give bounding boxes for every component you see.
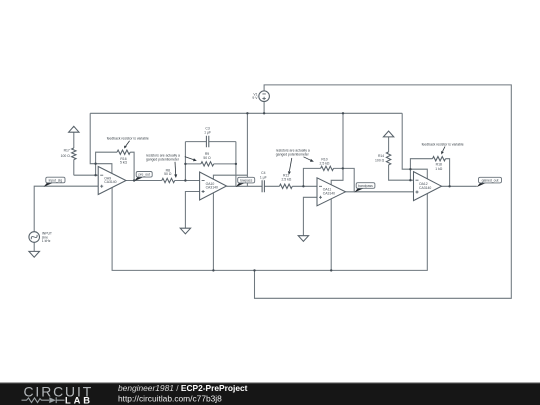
wire V- rail horizontal <box>112 188 427 271</box>
CircuitLab logo waveform and diode <box>22 397 65 403</box>
node flag pre_out <box>134 172 152 182</box>
wire OA10 feedback loop right vertical <box>235 142 237 187</box>
resistor R17 <box>61 148 76 160</box>
node flag lowpass <box>236 177 255 187</box>
svg-text:feedback resistor is variable: feedback resistor is variable <box>107 136 149 140</box>
resistor R11 <box>279 174 292 189</box>
wire bus drop to OA11 feedback node and top pin <box>331 113 343 185</box>
wire top supply loop from V1 top around right side to bottom <box>255 85 512 298</box>
voltage source V2 INPUT sine <box>29 232 52 244</box>
node flag gained_out <box>477 177 502 187</box>
annotation feedback resistor is variable (stage 1) <box>107 136 149 148</box>
battery V1 <box>252 91 269 102</box>
svg-text:1 kΩ: 1 kΩ <box>435 167 443 171</box>
svg-text:CA3140: CA3140 <box>323 192 335 196</box>
svg-text:http://circuitlab.com/c77b3j8: http://circuitlab.com/c77b3j8 <box>118 393 222 403</box>
svg-text:feedback resistor is variable: feedback resistor is variable <box>422 142 464 146</box>
wire OA10 plus input to ground <box>185 192 199 229</box>
wire OA10 feedback loop left vertical <box>184 142 186 181</box>
resistor R8 <box>162 168 175 182</box>
wire R14 leads to OA12 minus node <box>389 137 411 180</box>
wire bus drop to OA12 minus node and top pin <box>402 113 427 179</box>
wire R17 to OA9 minus input <box>74 174 98 176</box>
op-amp OA9 <box>98 167 126 195</box>
svg-text:1 kHz: 1 kHz <box>42 239 51 243</box>
ground below OA10 plus input <box>180 228 190 234</box>
wire OA11 plus input to ground <box>303 197 317 235</box>
wire C4 to R11 to OA11 minus <box>264 185 317 187</box>
op-amp OA11 <box>317 178 346 206</box>
node flag bandpass <box>354 183 375 193</box>
svg-text:5 kΩ: 5 kΩ <box>120 161 128 165</box>
ground below input source <box>29 251 40 257</box>
svg-text:2.5 kΩ: 2.5 kΩ <box>320 161 330 165</box>
svg-text:1 µF: 1 µF <box>260 175 267 179</box>
svg-text:CA3140: CA3140 <box>206 186 218 190</box>
ground below OA11 plus input <box>298 236 308 242</box>
annotation ganged potentiometer (stage 3) <box>276 148 314 174</box>
annotation ganged potentiometer (stage 2) <box>146 153 197 178</box>
svg-text:100 Ω: 100 Ω <box>375 158 385 162</box>
svg-text:R17: R17 <box>64 149 70 153</box>
wire bus drop to OA9 minus node and top pin <box>90 113 112 173</box>
resistor R14 <box>375 152 391 165</box>
wire OA12 output to gained_out <box>442 185 477 187</box>
svg-text:bengineer1981 / ECP2-PreProjec: bengineer1981 / ECP2-PreProject <box>118 383 248 393</box>
wire OA12 minus stub <box>410 179 413 181</box>
wire OA10 output to C4 <box>227 185 263 187</box>
svg-text:ganged potentiometer: ganged potentiometer <box>276 153 310 157</box>
svg-text:100 Ω: 100 Ω <box>61 154 71 158</box>
op-amp OA10 <box>200 172 227 200</box>
wire R17 leads <box>73 132 75 175</box>
power symbol above R14 <box>383 131 393 137</box>
wire OA12 feedback loop with R18 <box>410 159 449 187</box>
resistor R9 <box>201 152 214 166</box>
svg-text:input_sig: input_sig <box>49 178 63 182</box>
svg-text:lowpass: lowpass <box>240 179 253 183</box>
wire OA11 feedback loop with R10 <box>303 168 354 191</box>
resistor R16 <box>117 150 130 165</box>
wire source bottom to ground <box>33 242 35 251</box>
svg-text:50 Ω: 50 Ω <box>203 156 211 160</box>
wire bus drop to OA10 top pin <box>213 113 247 186</box>
wire V1 bottom lead to bus <box>263 102 265 114</box>
wire V+ bus horizontal <box>90 112 402 114</box>
svg-text:gained_out: gained_out <box>482 179 499 183</box>
svg-text:CA3140: CA3140 <box>104 180 116 184</box>
capacitor C4 <box>260 171 267 192</box>
svg-text:1 µF: 1 µF <box>204 130 211 134</box>
annotation feedback resistor is variable (stage 4) <box>422 142 464 154</box>
svg-text:2.5 kΩ: 2.5 kΩ <box>281 178 291 182</box>
footer black bar <box>0 383 540 405</box>
junction node dots <box>94 112 450 271</box>
svg-text:9 V: 9 V <box>252 96 258 100</box>
svg-text:50 Ω: 50 Ω <box>164 172 172 176</box>
power symbol above R17 <box>69 126 79 132</box>
wire OA9 output through R8 to OA10 minus <box>126 180 200 182</box>
capacitor C3 <box>204 126 211 147</box>
svg-text:ganged potentiometer: ganged potentiometer <box>146 158 180 162</box>
wire OA11 bottom pin to rail <box>330 199 332 271</box>
svg-text:LAB: LAB <box>65 394 93 405</box>
svg-text:pre_out: pre_out <box>138 173 150 177</box>
wire input_sig to OA9 plus input <box>34 186 98 232</box>
svg-text:bandpass: bandpass <box>358 184 373 188</box>
resistor R18 <box>433 157 446 171</box>
node flag input_sig <box>44 177 65 187</box>
wire C3 row <box>185 141 236 143</box>
op-amp OA12 <box>414 172 442 201</box>
wire OA11 output bandpass to OA12 plus <box>346 191 414 193</box>
svg-text:CA3140: CA3140 <box>419 186 431 190</box>
wire R9 row <box>185 163 236 165</box>
svg-text:R14: R14 <box>378 154 384 158</box>
wire OA10 bottom pin to rail <box>212 193 214 270</box>
resistor R10 <box>320 157 334 170</box>
wire OA9 feedback loop with R16 <box>96 152 135 180</box>
